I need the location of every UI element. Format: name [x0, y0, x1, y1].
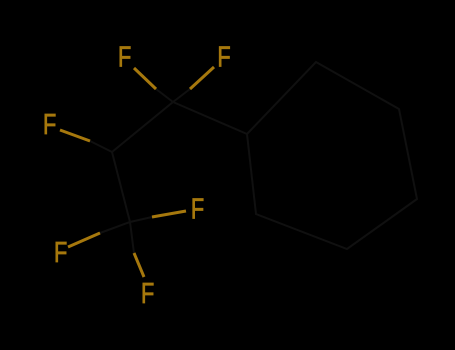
bond C0-F4 dark half	[130, 217, 152, 222]
bond C0-F5 olive half	[68, 233, 100, 247]
svg-text:F: F	[118, 42, 131, 74]
svg-text:F: F	[191, 194, 204, 226]
bond C2-F1 dark half	[156, 89, 173, 102]
svg-text:F: F	[43, 109, 56, 141]
svg-text:F: F	[141, 278, 154, 310]
svg-text:F: F	[217, 42, 230, 74]
wire bond C2-C1 (dark)	[112, 102, 173, 152]
bond C0-F5 dark half	[100, 222, 130, 233]
bond C0-F6 olive half	[134, 253, 144, 277]
bond C2-F2 olive half	[190, 67, 214, 89]
bond C0-F4 olive half	[152, 211, 186, 217]
svg-text:F: F	[54, 237, 67, 269]
bond C1-F3 dark half	[90, 141, 112, 152]
bond C1-F3 olive half	[60, 130, 90, 141]
wire bond C1-C0 (dark)	[112, 152, 130, 222]
ring C6 (cyclohexyl, dark)	[247, 62, 417, 249]
bond C2-F2 dark half	[173, 89, 190, 102]
bond C2-F1 olive half	[134, 68, 156, 89]
bond C0-F6 dark half	[130, 222, 134, 253]
wire bond C2-ring (dark)	[173, 102, 247, 134]
